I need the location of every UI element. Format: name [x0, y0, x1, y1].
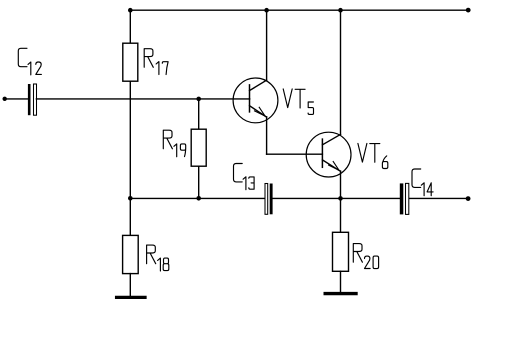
label R19: [163, 130, 185, 157]
transistor VT6: [306, 132, 351, 177]
node top rail / VT5 collector: [264, 8, 269, 13]
wire bottom rail left segment: [130, 197, 264, 199]
capacitor C13: [265, 184, 268, 215]
wire R18 bottom lead: [129, 274, 131, 297]
label C14: [412, 169, 433, 196]
node top rail / VT6 collector: [338, 8, 343, 13]
resistor R20: [333, 232, 349, 271]
wire VT6 collector to rail: [340, 10, 342, 134]
resistor R19: [191, 129, 206, 166]
ground below R18: [117, 296, 145, 299]
label R20: [353, 244, 378, 269]
wire C14 to output: [410, 197, 468, 199]
node emitter VT6 / R20: [338, 196, 343, 201]
wire C12 to VT5 base: [36, 98, 249, 100]
label R18: [147, 245, 169, 271]
wire input to C12: [5, 98, 28, 100]
wire VT6 emitter down to R20: [340, 171, 342, 232]
label VT5: [283, 89, 313, 115]
wire R17 top lead: [129, 10, 131, 43]
capacitor C14: [400, 183, 404, 214]
node top rail / R17: [128, 8, 133, 13]
input terminal: [2, 97, 6, 101]
wire VT5 collector to rail: [266, 10, 268, 80]
node R19 / base line: [196, 97, 201, 102]
wire VT5 emitter down: [266, 117, 268, 154]
wire top supply rail: [130, 9, 468, 11]
node bottom rail / R19: [196, 196, 201, 201]
wire C13 to emitter node: [272, 197, 399, 199]
supply terminal top right: [466, 8, 471, 13]
capacitor C12: [28, 84, 31, 115]
ground below R20: [325, 292, 356, 295]
wire R17 bottom through base node down to bottom rail and R18: [129, 81, 131, 235]
resistor R17: [123, 43, 138, 81]
wire R20 bottom lead: [340, 271, 342, 292]
wire R19 top lead: [198, 99, 200, 129]
wire R19 bottom lead: [198, 166, 200, 198]
resistor R18: [123, 235, 139, 273]
transistor VT5: [233, 78, 278, 123]
label C13: [234, 164, 255, 190]
label VT6: [358, 143, 388, 168]
wire VT5 emitter to VT6 base: [267, 153, 323, 155]
label R17: [144, 49, 168, 75]
node bottom rail / R18: [128, 196, 133, 201]
label C12: [18, 48, 41, 75]
output terminal: [466, 196, 471, 201]
